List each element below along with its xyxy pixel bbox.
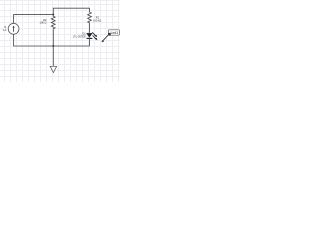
wire: LED cathode down [89,38,91,46]
LED D1 [87,33,93,38]
svg-text:LTL-307EE: LTL-307EE [73,35,86,39]
node A junction dot [52,14,54,16]
wire: source top to node A [14,15,54,24]
wire: node A up and right to R1 top [53,8,89,14]
svg-text:100 kΩ: 100 kΩ [93,19,101,23]
current source I1 [8,23,19,34]
resistor R2 [51,15,55,46]
LED light emission arrows [92,32,97,40]
wire: bottom rail [14,34,90,46]
ground [50,46,56,73]
probe Led1 arrow [101,35,108,42]
svg-text:Led1: Led1 [111,31,119,35]
svg-text:1 A: 1 A [3,28,7,32]
label R1 value [93,16,101,23]
label D1 value [73,32,86,39]
svg-text:100 Ω: 100 Ω [40,20,47,24]
label R2 value [40,18,48,24]
ground junction dot [52,45,54,47]
probe Led1 label box [108,30,119,36]
label I1 value [3,25,7,32]
resistor R1 [88,12,92,33]
